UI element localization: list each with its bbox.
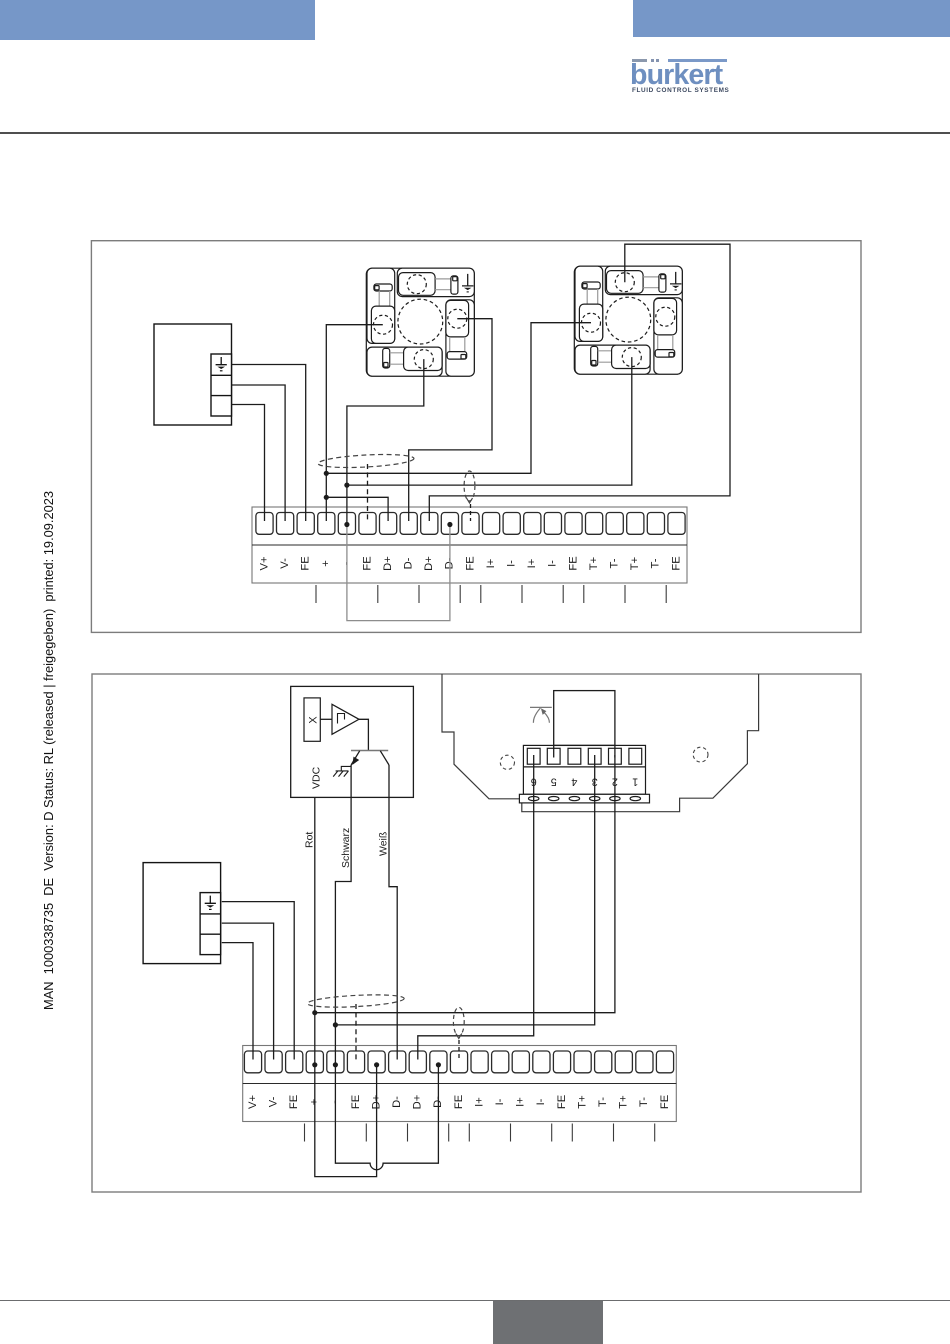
svg-text:D-: D- bbox=[391, 1096, 403, 1108]
wire PSU2 V+ cell to terminal V+(1) bbox=[222, 943, 253, 1060]
group separator ticks X1 bbox=[316, 585, 666, 603]
terminal labels X2 bbox=[247, 1095, 671, 1110]
wire PSU2 FE cell to terminal FE(3) bbox=[222, 902, 294, 1060]
group separator ticks X2 bbox=[305, 1124, 655, 1142]
wire + junction to device M2 left port bbox=[326, 323, 591, 474]
device M2 (flow sensor, top view) bbox=[574, 266, 682, 374]
cable shield ellipse 1 bbox=[307, 993, 404, 1009]
svg-text:+: + bbox=[320, 560, 332, 567]
svg-text:I+: I+ bbox=[515, 1097, 527, 1107]
device housing outline (back view) bbox=[442, 674, 759, 812]
bridge wire terminal -(5) to terminal D-(10) below strip bbox=[347, 524, 450, 621]
svg-text:T-: T- bbox=[650, 558, 662, 568]
wire device M2 top port to terminal D+(9) bbox=[429, 244, 730, 521]
wire - junction to device M2 bottom port bbox=[347, 357, 632, 485]
svg-text:FE: FE bbox=[659, 1095, 671, 1109]
wire + junction to terminal D+(7) bbox=[326, 497, 388, 521]
svg-text:T+: T+ bbox=[588, 557, 600, 570]
logo top bar bbox=[632, 59, 647, 62]
junction dots box1 bbox=[324, 471, 453, 527]
connector terminal block (pins 6..1) bbox=[519, 745, 649, 802]
svg-text:Schwarz: Schwarz bbox=[340, 828, 352, 868]
svg-text:FE: FE bbox=[288, 1095, 300, 1109]
svg-text:I-: I- bbox=[547, 560, 559, 567]
strain relief clip symbol bbox=[530, 706, 552, 708]
wire PSU1 V+ cell to terminal V+(1) bbox=[232, 405, 265, 522]
svg-text:VDC: VDC bbox=[311, 766, 323, 789]
cable shield ellipse 1 bbox=[318, 452, 414, 469]
wire PSU2 V- cell to terminal V-(2) bbox=[222, 923, 274, 1059]
mounting hole right bbox=[693, 747, 708, 762]
svg-text:I+: I+ bbox=[473, 1097, 485, 1107]
svg-text:I+: I+ bbox=[526, 559, 538, 569]
wire pin2 to + junction bbox=[315, 755, 615, 1013]
wire comparator to transistor base bbox=[359, 719, 368, 750]
svg-text:T+: T+ bbox=[576, 1095, 588, 1108]
svg-text:T+: T+ bbox=[629, 557, 641, 570]
svg-text:D-: D- bbox=[403, 557, 415, 569]
wire pin6 to terminal D+(9) bbox=[418, 755, 534, 1060]
power supply PSU2 bbox=[143, 863, 221, 964]
svg-text:T-: T- bbox=[638, 1097, 650, 1107]
svg-text:FE: FE bbox=[350, 1095, 362, 1109]
pin numbers 6 5 4 3 2 1 (rotated 180) bbox=[531, 776, 639, 788]
sensor element X bbox=[304, 698, 320, 741]
header blue bar left bbox=[0, 0, 315, 40]
svg-text:V+: V+ bbox=[247, 1095, 259, 1109]
svg-text:Weiß: Weiß bbox=[378, 832, 390, 856]
wire PSU1 V- cell to terminal V-(2) bbox=[232, 385, 286, 521]
header blue bar right bbox=[633, 0, 950, 37]
svg-text:I+: I+ bbox=[485, 559, 497, 569]
bridge wire terminal +(4) to terminal D+(7) below strip bbox=[315, 1063, 377, 1177]
svg-text:1: 1 bbox=[632, 776, 638, 788]
transistor Q1 emitter and collector bbox=[351, 751, 389, 765]
transistor Q1 base bar bbox=[351, 750, 388, 752]
svg-text:T+: T+ bbox=[618, 1095, 630, 1108]
logo wordmark bbox=[630, 59, 740, 92]
wire device M1 bottom port to terminal -(5) bbox=[347, 359, 424, 525]
burkert logo bbox=[630, 55, 740, 100]
wire device M1 right port to terminal D-(8) bbox=[409, 319, 492, 521]
svg-text:FE: FE bbox=[464, 556, 476, 570]
sensor circuit box bbox=[291, 686, 414, 797]
cable shield ellipse 2 bbox=[453, 1007, 464, 1035]
shield drain arrow to terminal FE(11) bbox=[467, 498, 473, 503]
terminal strip X1 bbox=[252, 507, 687, 583]
svg-text:V-: V- bbox=[279, 558, 291, 569]
wire device M1 left port to terminal +(4) bbox=[326, 325, 383, 521]
shield drain wire to terminal FE(6) bbox=[355, 1004, 357, 1060]
wire PSU1 FE cell to terminal FE(3) bbox=[232, 365, 306, 522]
svg-text:T-: T- bbox=[597, 1097, 609, 1107]
mounting hole left bbox=[500, 755, 514, 769]
wire X to comparator bbox=[320, 718, 332, 720]
cable duct rectangle bbox=[554, 691, 615, 746]
wire Weiss (sensor collector) to terminal D-(8) bbox=[389, 765, 397, 1060]
svg-text:X: X bbox=[307, 716, 319, 724]
terminal strip X2 bbox=[243, 1046, 677, 1122]
terminal labels X1 bbox=[258, 556, 682, 571]
svg-text:Rot: Rot bbox=[304, 832, 316, 848]
svg-text:D+: D+ bbox=[382, 556, 394, 571]
wire Rot (sensor VDC) to terminal +(4) bbox=[314, 797, 316, 1063]
svg-text:I-: I- bbox=[535, 1098, 547, 1105]
shield drain wire to terminal FE(6) bbox=[367, 464, 369, 521]
svg-text:5: 5 bbox=[551, 776, 557, 788]
logo subtitle bbox=[632, 87, 740, 94]
svg-text:FE: FE bbox=[556, 1095, 568, 1109]
svg-text:V-: V- bbox=[267, 1096, 279, 1107]
svg-text:V+: V+ bbox=[258, 557, 270, 571]
footer gray block bbox=[493, 1301, 603, 1344]
junction dots box2 bbox=[312, 1010, 441, 1067]
svg-text:T-: T- bbox=[609, 558, 621, 568]
svg-text:D+: D+ bbox=[412, 1095, 424, 1110]
device M1 (flow sensor, top view) bbox=[366, 268, 474, 376]
svg-text:FE: FE bbox=[300, 556, 312, 570]
svg-text:I-: I- bbox=[506, 560, 518, 567]
svg-text:FE: FE bbox=[567, 556, 579, 570]
svg-text:FE: FE bbox=[361, 556, 373, 570]
power supply PSU1 bbox=[154, 324, 232, 425]
hysteresis symbol bbox=[338, 714, 345, 724]
cable shield ellipse 2 bbox=[464, 471, 475, 501]
wire pin3 to - junction bbox=[335, 755, 594, 1025]
svg-text:D+: D+ bbox=[423, 556, 435, 571]
footer rule bbox=[0, 1300, 950, 1301]
header rule bbox=[0, 132, 950, 134]
sidebar document id text (rotated) bbox=[41, 490, 57, 1010]
svg-text:I-: I- bbox=[494, 1098, 506, 1105]
svg-text:FE: FE bbox=[670, 556, 682, 570]
svg-text:4: 4 bbox=[571, 776, 577, 788]
comparator U1 bbox=[332, 704, 359, 734]
wire Schwarz (sensor emitter) to terminal -(5) bbox=[335, 765, 351, 1063]
bridge wire terminal -(5) to terminal D-(10) below strip bbox=[335, 1063, 438, 1170]
outer frame box2 bbox=[92, 674, 861, 1192]
shield drain arrow to terminal FE(11) bbox=[456, 1034, 462, 1039]
outer frame box1 bbox=[91, 241, 861, 633]
emitter chassis ground symbol bbox=[333, 766, 351, 776]
svg-text:FE: FE bbox=[453, 1095, 465, 1109]
